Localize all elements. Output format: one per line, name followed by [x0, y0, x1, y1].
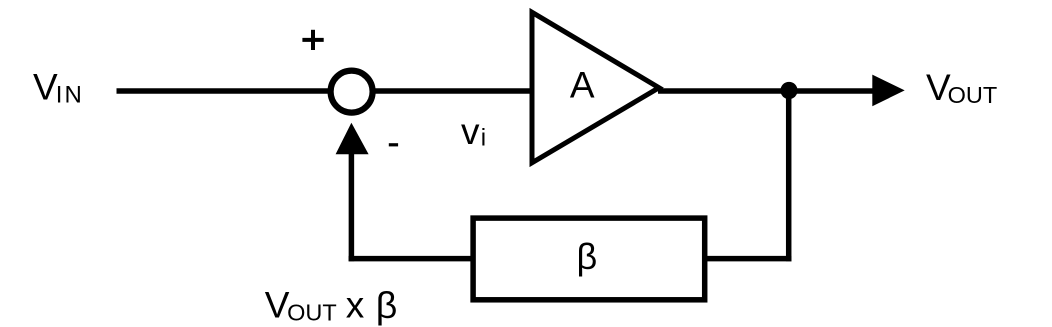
wire W7: vertical feedback wire up to summing junction — [349, 153, 355, 261]
arrowhead to VOUT — [872, 75, 904, 107]
wire W1: VIN to summing junction — [117, 88, 334, 94]
arrowhead into summing junction (feedback input) — [336, 123, 369, 155]
wire W6: feedback block input horizontal (left) — [349, 256, 478, 262]
op-amp / gain block A1 (triangle) — [532, 12, 659, 163]
summing junction S1 — [331, 71, 373, 113]
wire W4: output junction down to feedback network — [786, 89, 792, 261]
svg-text:β: β — [577, 236, 598, 277]
svg-text:β: β — [376, 284, 398, 326]
svg-text:A: A — [570, 65, 595, 106]
feedback block B1 (beta network box) — [473, 218, 705, 300]
wire W3: amplifier output to VOUT arrow — [658, 88, 873, 94]
svg-text:i: i — [481, 125, 486, 152]
svg-text:v: v — [461, 111, 480, 152]
svg-text:OUT: OUT — [287, 300, 337, 326]
minus sign at feedback input — [389, 143, 398, 146]
plus sign at summing junction — [302, 30, 323, 50]
svg-text:OUT: OUT — [948, 82, 998, 108]
wire W5: feedback block output to vertical riser (right horizontal) — [703, 256, 792, 262]
svg-text:V: V — [265, 285, 290, 326]
svg-text:V: V — [33, 66, 58, 107]
wire W2: summing junction to amplifier input — [370, 88, 537, 94]
junction dot N1 (output node) — [780, 82, 797, 99]
svg-text:IN: IN — [56, 81, 84, 108]
svg-text:x: x — [346, 285, 365, 326]
